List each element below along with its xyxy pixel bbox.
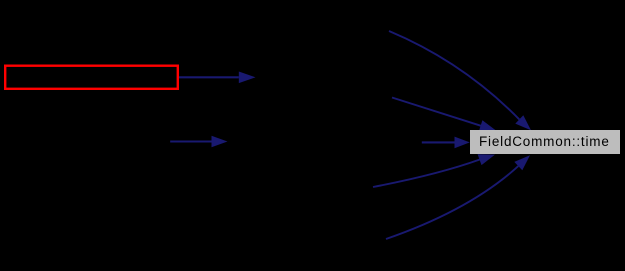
wire edge E1: red node to hidden middle node [179,72,256,84]
wire edge E7: bottom arc into FieldCommon::time [386,155,530,239]
wire edge E5: horizontal edge into FieldCommon::time [422,137,470,149]
wire edge E6: lower shallow edge into FieldCommon::time [373,154,495,187]
wire edge E2: hidden left node to hidden middle node [170,136,227,148]
wire edge E3: top arc into FieldCommon::time [389,31,531,130]
wire edge E4: upper straight edge into FieldCommon::time [392,98,496,132]
node R1 truncated caller (red box) [5,66,178,89]
node U1: FieldCommon::time (current function, grey) [470,130,620,154]
